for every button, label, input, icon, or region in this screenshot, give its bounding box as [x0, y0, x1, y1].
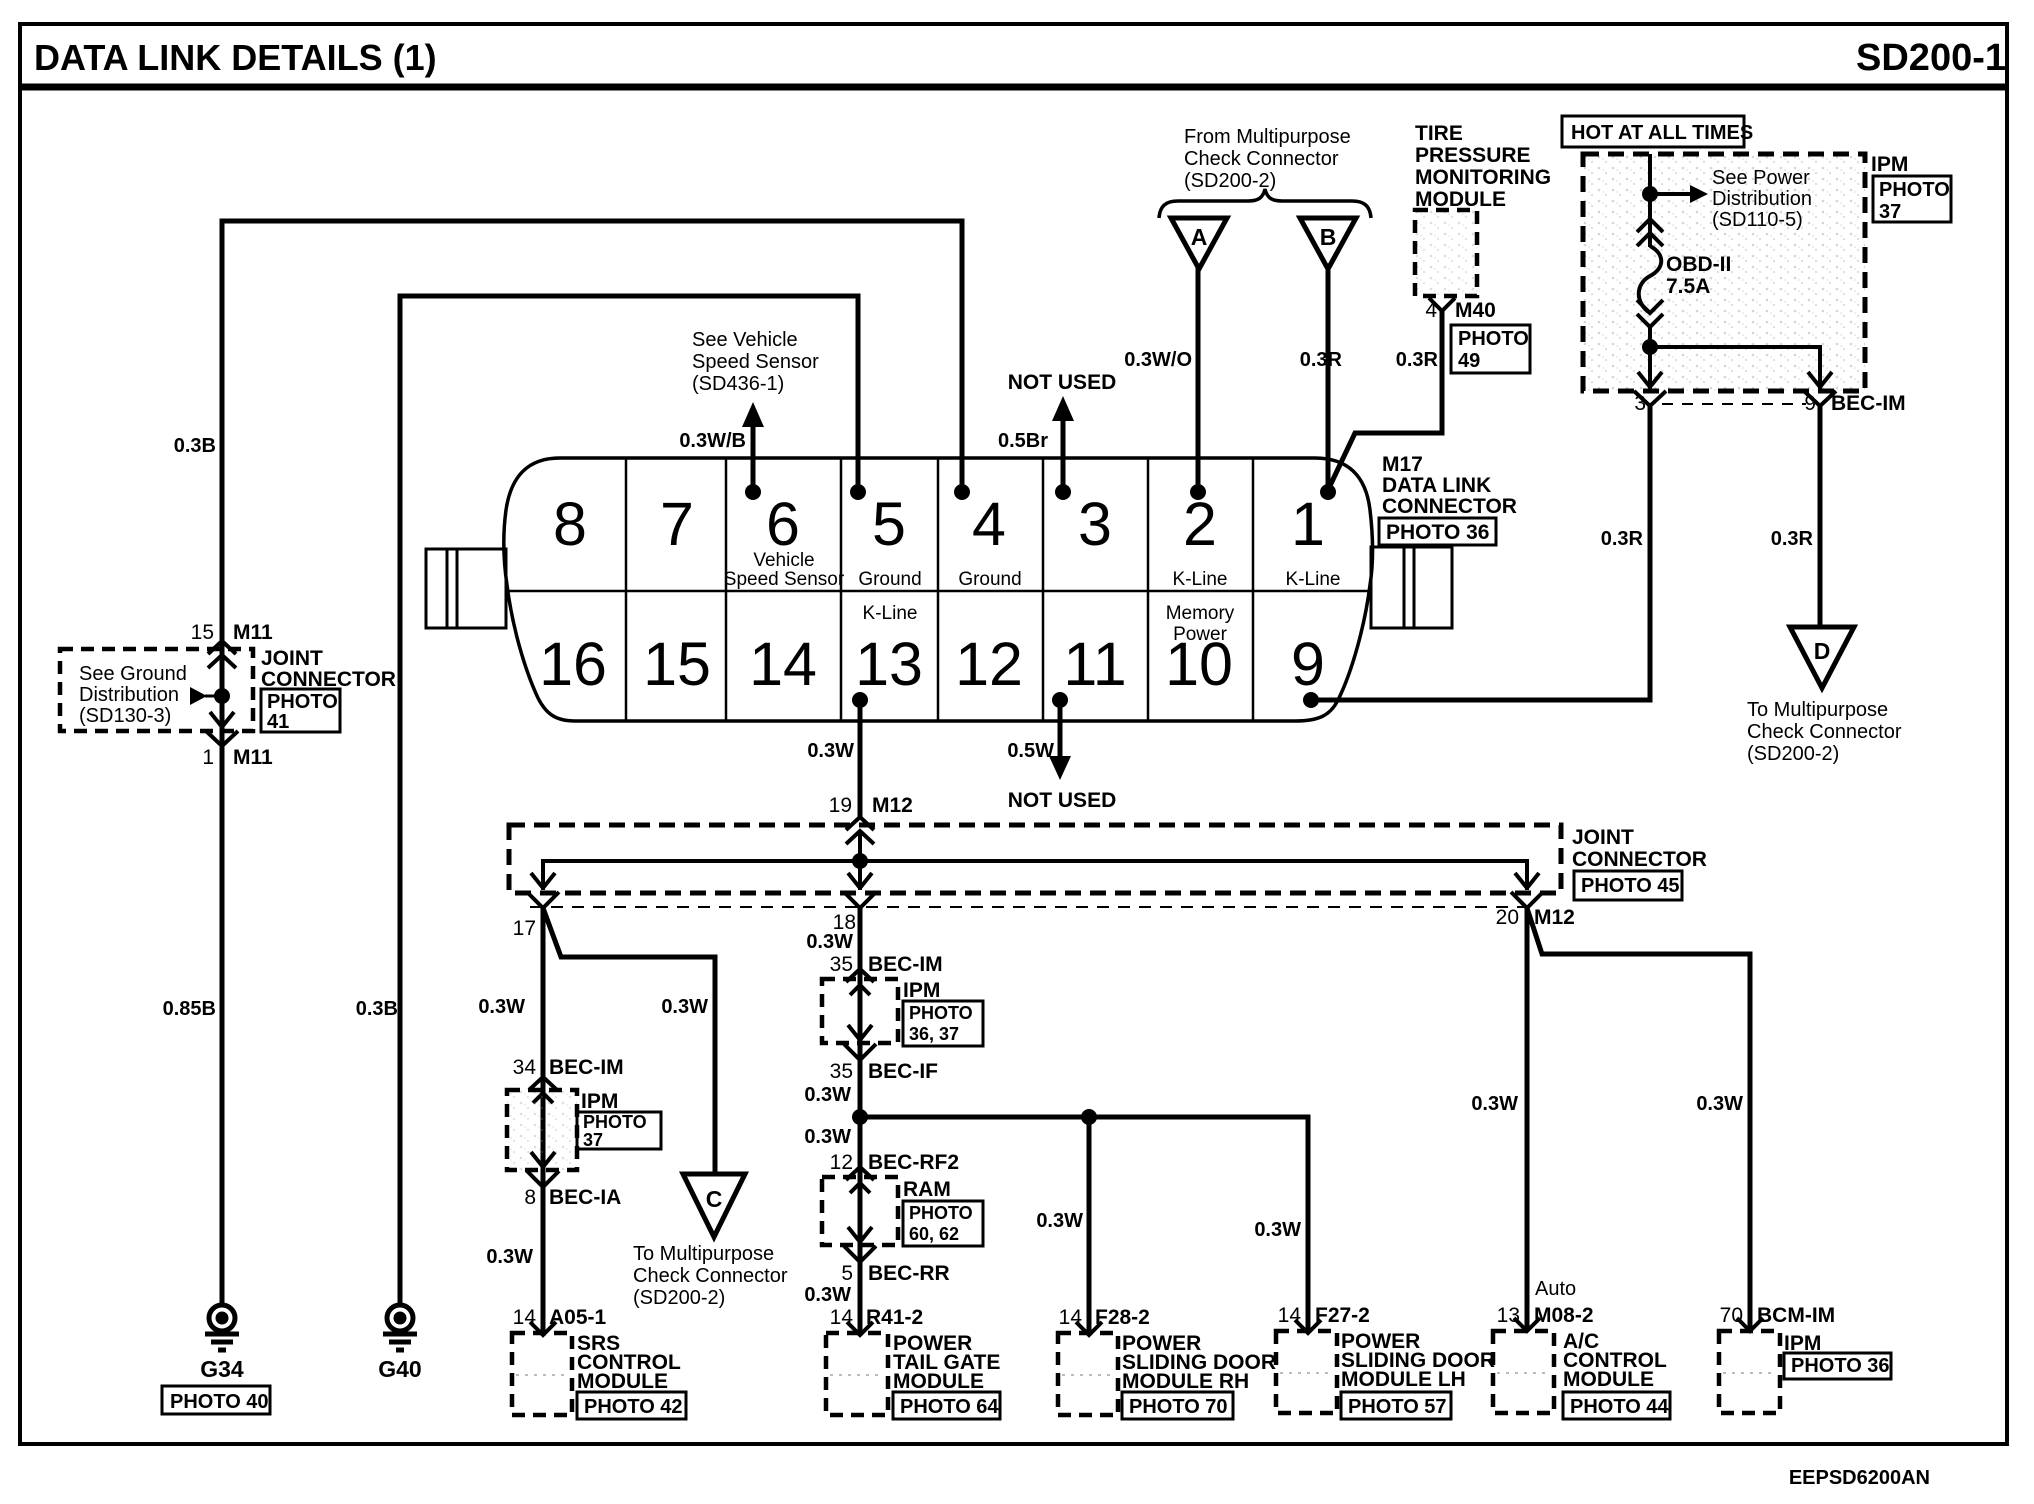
svg-text:IPM: IPM: [903, 979, 940, 1002]
svg-text:M17: M17: [1382, 453, 1423, 476]
PHOTO 44 box: [1563, 1392, 1670, 1419]
PHOTO 42 box: [577, 1392, 686, 1419]
wire M40 down to pin1: [1328, 311, 1442, 490]
svg-text:MODULE: MODULE: [1563, 1368, 1654, 1391]
svg-text:RAM: RAM: [903, 1178, 951, 1201]
PHOTO 45 box: [1574, 871, 1682, 900]
SRS control module dashed box: [512, 1333, 572, 1415]
svg-text:9: 9: [1291, 630, 1325, 698]
svg-text:PHOTO: PHOTO: [909, 1203, 973, 1223]
wire: G34 riser up, across top to pin 4: [222, 221, 962, 1306]
svg-text:4: 4: [1425, 299, 1437, 322]
svg-text:MODULE: MODULE: [1415, 188, 1506, 211]
svg-text:0.3B: 0.3B: [356, 998, 398, 1020]
svg-text:19: 19: [829, 794, 852, 817]
A/C control module dashed box: [1493, 1331, 1554, 1413]
svg-text:K-Line: K-Line: [863, 603, 918, 624]
svg-text:14: 14: [749, 630, 817, 698]
IPM dashed box (top right) with speckle fill: [1583, 154, 1865, 391]
IPM module dashed box (bottom right): [1719, 1331, 1780, 1413]
connector 13 M08-2 chevron: [1514, 1318, 1540, 1331]
svg-text:K-Line: K-Line: [1173, 569, 1228, 590]
svg-text:MODULE RH: MODULE RH: [1122, 1370, 1249, 1393]
HOT AT ALL TIMES box: [1562, 116, 1744, 147]
svg-text:0.3R: 0.3R: [1396, 349, 1439, 371]
svg-text:To Multipurpose: To Multipurpose: [633, 1243, 774, 1265]
svg-text:15: 15: [643, 630, 711, 698]
svg-text:G34: G34: [200, 1356, 244, 1382]
svg-text:IPM: IPM: [581, 1090, 618, 1113]
IPM pass-through dashed box (middle): [822, 979, 898, 1043]
power tail gate module dashed box: [826, 1333, 888, 1415]
svg-text:49: 49: [1458, 350, 1480, 372]
connector cell dividers vertical: [626, 458, 1253, 721]
svg-text:F28-2: F28-2: [1095, 1306, 1150, 1329]
wire: G40 riser up, across to pin 5: [400, 296, 858, 1306]
svg-text:BEC-IM: BEC-IM: [1831, 392, 1906, 415]
svg-text:60, 62: 60, 62: [909, 1224, 959, 1244]
svg-text:BCM-IM: BCM-IM: [1757, 1304, 1835, 1327]
svg-text:MODULE: MODULE: [893, 1370, 984, 1393]
svg-text:5: 5: [872, 490, 906, 558]
svg-text:16: 16: [539, 630, 607, 698]
svg-text:(SD110-5): (SD110-5): [1712, 209, 1803, 231]
svg-text:(SD200-2): (SD200-2): [633, 1287, 725, 1309]
title separator bar: [18, 84, 2009, 91]
svg-text:BEC-IF: BEC-IF: [868, 1060, 938, 1083]
svg-text:0.3W: 0.3W: [806, 931, 853, 953]
off-page triangle C: [683, 1174, 745, 1237]
svg-text:1: 1: [202, 746, 214, 769]
svg-text:NOT USED: NOT USED: [1008, 789, 1117, 812]
power sliding door module RH dashed box: [1058, 1333, 1118, 1415]
connector exit 8 BEC-IA (arrow + chevron): [527, 1152, 559, 1187]
svg-text:G40: G40: [378, 1356, 421, 1382]
wire pin9 to IPM pin 3: [1311, 406, 1650, 700]
svg-text:PHOTO 70: PHOTO 70: [1129, 1396, 1228, 1418]
svg-text:M11: M11: [233, 621, 273, 644]
svg-text:PHOTO: PHOTO: [267, 691, 338, 713]
svg-text:7.5A: 7.5A: [1666, 275, 1710, 298]
svg-text:0.3W: 0.3W: [478, 996, 525, 1018]
svg-text:MONITORING: MONITORING: [1415, 166, 1551, 189]
svg-text:9: 9: [1804, 392, 1816, 415]
wire F28-2 branch down: [1087, 1117, 1092, 1332]
svg-text:14: 14: [1278, 1304, 1302, 1327]
connector 14 A05-1 chevron: [530, 1322, 556, 1335]
svg-text:5: 5: [841, 1262, 853, 1285]
svg-text:0.3R: 0.3R: [1601, 528, 1644, 550]
connector 14 R41-2 chevron: [847, 1322, 873, 1335]
svg-text:PHOTO 36: PHOTO 36: [1791, 1355, 1890, 1377]
svg-text:Speed Sensor: Speed Sensor: [692, 351, 819, 373]
connector exit 17 (arrow + chevron): [527, 873, 559, 908]
wire pin11 NOT USED arrow down: [1058, 700, 1063, 757]
connector exit 3 (arrow + chevron): [1634, 372, 1666, 406]
connector 15 M11 chevrons (entry up): [208, 641, 236, 668]
wire column 18 down to R41-2: [858, 908, 863, 1332]
svg-text:To Multipurpose: To Multipurpose: [1747, 699, 1888, 721]
branch wire to pin 9 exit: [1650, 347, 1820, 391]
svg-text:14: 14: [1059, 1306, 1083, 1329]
svg-text:M12: M12: [1534, 906, 1575, 929]
PHOTO 57 box: [1341, 1392, 1451, 1419]
svg-text:0.3W: 0.3W: [661, 996, 708, 1018]
wire pin1 to triangle B: [1326, 268, 1331, 492]
connector mid horizontal divider: [507, 590, 1371, 593]
svg-text:34: 34: [513, 1056, 537, 1079]
svg-text:JOINT: JOINT: [1572, 826, 1634, 849]
svg-text:MODULE: MODULE: [577, 1370, 668, 1393]
junction dot (power feed): [1642, 186, 1658, 202]
svg-text:35: 35: [830, 953, 853, 976]
svg-text:37: 37: [583, 1130, 603, 1150]
PHOTO 64 box: [893, 1392, 1000, 1419]
svg-text:BEC-IA: BEC-IA: [549, 1186, 621, 1209]
connector 70 BCM-IM chevron: [1737, 1318, 1763, 1331]
svg-text:SD200-1: SD200-1: [1856, 37, 2006, 79]
svg-text:3: 3: [1078, 490, 1112, 558]
svg-text:M11: M11: [233, 746, 273, 769]
junction dot K-line bus: [852, 1109, 868, 1125]
svg-text:1: 1: [1291, 490, 1325, 558]
svg-text:OBD-II: OBD-II: [1666, 253, 1731, 276]
ground G34: [209, 1305, 235, 1331]
arrow to ground distribution: [190, 687, 207, 705]
svg-text:Vehicle: Vehicle: [753, 550, 814, 571]
bus wire inside joint connector: [543, 861, 1527, 890]
connector 12 BEC-RF2 chevrons (entry up): [846, 1167, 874, 1193]
junction dot (split to 3 and 9): [1642, 339, 1658, 355]
off-page triangle B: [1300, 218, 1356, 269]
svg-text:17: 17: [513, 917, 536, 940]
svg-text:Ground: Ground: [958, 569, 1021, 590]
PHOTO 41 box: [261, 689, 340, 732]
PHOTO 60, 62 box: [903, 1201, 983, 1246]
svg-text:DATA LINK: DATA LINK: [1382, 474, 1491, 497]
svg-text:8: 8: [524, 1186, 536, 1209]
svg-text:BEC-IM: BEC-IM: [549, 1056, 624, 1079]
svg-text:Check Connector: Check Connector: [1184, 148, 1339, 170]
RAM pass-through dashed box: [822, 1177, 898, 1245]
branch wire 17 to triangle C: [543, 908, 715, 1173]
svg-text:MODULE LH: MODULE LH: [1341, 1368, 1466, 1391]
svg-text:PHOTO 57: PHOTO 57: [1348, 1396, 1447, 1418]
svg-text:0.3W/B: 0.3W/B: [679, 430, 746, 452]
svg-text:Ground: Ground: [858, 569, 921, 590]
pin terminal dots top row: [745, 484, 761, 500]
joint connector M11 dashed box: [60, 649, 253, 731]
wire from fuse to bottom edge: [1648, 327, 1652, 391]
svg-text:0.85B: 0.85B: [163, 998, 216, 1020]
svg-text:0.3W: 0.3W: [804, 1284, 851, 1306]
junction dot F28-2 branch: [1081, 1109, 1097, 1125]
svg-text:6: 6: [766, 490, 800, 558]
wire pin3 NOT USED arrow up: [1061, 418, 1066, 492]
svg-text:7: 7: [660, 490, 694, 558]
fuse bottom double chevron: [1637, 300, 1663, 327]
connector exit 5 BEC-RR (arrow + chevron): [844, 1227, 876, 1262]
svg-text:36, 37: 36, 37: [909, 1024, 959, 1044]
svg-text:12: 12: [955, 630, 1023, 698]
svg-text:0.3W: 0.3W: [807, 740, 854, 762]
connector 19 M12 chevrons (entry up): [846, 817, 874, 844]
svg-text:41: 41: [267, 711, 289, 733]
svg-text:PHOTO 42: PHOTO 42: [584, 1396, 683, 1418]
svg-text:Distribution: Distribution: [1712, 188, 1812, 210]
thin dashed line below joint connector: [530, 906, 1535, 908]
svg-text:14: 14: [513, 1306, 537, 1329]
svg-text:JOINT: JOINT: [261, 647, 323, 670]
arrow to See Power Distribution: [1650, 192, 1690, 196]
junction dot on bus: [852, 853, 868, 869]
svg-text:IPM: IPM: [1871, 153, 1908, 176]
connector 4 M40 chevron at TPMS box bottom: [1429, 298, 1455, 311]
PHOTO 36 box (bottom right): [1784, 1353, 1891, 1379]
connector exit 20 M12 (arrow + chevron): [1511, 873, 1543, 908]
wire inside IPM from top edge down: [1648, 154, 1652, 247]
svg-text:PHOTO 36: PHOTO 36: [1386, 521, 1489, 544]
svg-text:0.3W/O: 0.3W/O: [1124, 349, 1192, 371]
svg-text:M08-2: M08-2: [1534, 1304, 1594, 1327]
connector exit 35 BEC-IF (arrow + chevron): [844, 1025, 876, 1060]
PHOTO 40 box: [162, 1386, 270, 1414]
power sliding door module LH dashed box: [1276, 1331, 1337, 1413]
svg-text:0.5W: 0.5W: [1007, 740, 1054, 762]
svg-text:EEPSD6200AN: EEPSD6200AN: [1789, 1467, 1930, 1489]
left mounting tab: [426, 549, 506, 628]
wire pin2 to triangle A: [1196, 268, 1201, 492]
svg-text:0.3W: 0.3W: [804, 1084, 851, 1106]
svg-text:0.3W: 0.3W: [486, 1246, 533, 1268]
svg-text:M12: M12: [872, 794, 913, 817]
M17 data link connector body outline: [504, 458, 1373, 721]
TPMS module dashed box: [1415, 210, 1477, 296]
svg-text:Auto: Auto: [1535, 1278, 1576, 1300]
svg-text:F27-2: F27-2: [1315, 1304, 1370, 1327]
svg-text:A05-1: A05-1: [549, 1306, 607, 1329]
svg-text:20: 20: [1496, 906, 1519, 929]
svg-text:0.3W: 0.3W: [1471, 1093, 1518, 1115]
svg-text:35: 35: [830, 1060, 853, 1083]
svg-text:3: 3: [1634, 392, 1646, 415]
connector 35 BEC-IM chevrons (entry up): [846, 969, 874, 995]
svg-text:Power: Power: [1173, 624, 1228, 645]
svg-text:14: 14: [830, 1306, 854, 1329]
IPM pass-through dashed box (left): [507, 1090, 577, 1170]
svg-text:8: 8: [553, 490, 587, 558]
svg-text:Check Connector: Check Connector: [633, 1265, 788, 1287]
svg-text:BEC-RR: BEC-RR: [868, 1262, 950, 1285]
svg-text:0.3W: 0.3W: [1254, 1219, 1301, 1241]
svg-text:BEC-RF2: BEC-RF2: [868, 1151, 959, 1174]
svg-text:11: 11: [1063, 630, 1126, 698]
svg-text:C: C: [706, 1186, 723, 1212]
svg-text:PHOTO 40: PHOTO 40: [170, 1391, 269, 1413]
wire column 17 down to SRS module: [541, 908, 546, 1332]
fuse OBD-II 7.5A : top double chevron: [1637, 219, 1663, 246]
PHOTO 36, 37 box: [903, 1001, 983, 1046]
wire pin6 to vehicle speed sensor arrow: [751, 424, 756, 492]
connector 1 M11 (exit down: arrow + chevron): [206, 712, 238, 746]
fuse element (S curve): [1639, 246, 1662, 313]
svg-text:Memory: Memory: [1166, 603, 1235, 624]
svg-text:DATA LINK DETAILS (1): DATA LINK DETAILS (1): [34, 37, 437, 78]
svg-text:0.3W: 0.3W: [1036, 1210, 1083, 1232]
svg-text:PHOTO: PHOTO: [909, 1003, 973, 1023]
svg-text:(SD200-2): (SD200-2): [1184, 170, 1276, 192]
svg-text:PHOTO 44: PHOTO 44: [1570, 1396, 1669, 1418]
wire pin13 down to joint connector: [858, 700, 863, 818]
svg-text:R41-2: R41-2: [866, 1306, 923, 1329]
svg-text:PHOTO: PHOTO: [583, 1112, 647, 1132]
off-page triangle A: [1171, 218, 1227, 269]
svg-text:CONNECTOR: CONNECTOR: [1382, 495, 1517, 518]
connector 14 F27-2 chevron: [1295, 1320, 1321, 1333]
svg-text:13: 13: [855, 630, 923, 698]
svg-text:0.3R: 0.3R: [1300, 349, 1343, 371]
connector 14 F28-2 chevron: [1076, 1322, 1102, 1335]
svg-text:See Power: See Power: [1712, 167, 1810, 189]
svg-text:See Ground: See Ground: [79, 663, 187, 685]
svg-text:See Vehicle: See Vehicle: [692, 329, 798, 351]
svg-text:0.3B: 0.3B: [174, 435, 216, 457]
svg-text:13: 13: [1497, 1304, 1520, 1327]
svg-text:PHOTO: PHOTO: [1879, 179, 1950, 201]
PHOTO 36 box (M17): [1379, 518, 1496, 545]
svg-text:0.3W: 0.3W: [1696, 1093, 1743, 1115]
joint connector M12 dashed box: [509, 825, 1561, 893]
svg-text:HOT AT ALL TIMES: HOT AT ALL TIMES: [1571, 122, 1753, 144]
svg-text:0.5Br: 0.5Br: [998, 430, 1048, 452]
PHOTO 49 box: [1451, 325, 1530, 373]
brace over triangles A and B: [1159, 189, 1371, 218]
junction dot on M11 wire: [214, 688, 230, 704]
svg-text:(SD200-2): (SD200-2): [1747, 743, 1839, 765]
svg-text:12: 12: [830, 1151, 853, 1174]
svg-text:4: 4: [972, 490, 1006, 558]
connector 34 BEC-IM chevrons (entry up): [529, 1077, 557, 1103]
svg-text:K-Line: K-Line: [1286, 569, 1341, 590]
svg-text:CONNECTOR: CONNECTOR: [1572, 848, 1707, 871]
svg-text:PHOTO 45: PHOTO 45: [1581, 875, 1680, 897]
svg-text:M40: M40: [1455, 299, 1496, 322]
PHOTO 70 box: [1122, 1392, 1233, 1419]
svg-text:NOT USED: NOT USED: [1008, 371, 1117, 394]
svg-text:0.3W: 0.3W: [804, 1126, 851, 1148]
svg-text:B: B: [1320, 224, 1337, 250]
off-page triangle D: [1790, 627, 1854, 688]
svg-text:15: 15: [191, 621, 214, 644]
wire column 20 down to M08-2: [1525, 908, 1530, 1330]
connector exit 9 BEC-IM (arrow + chevron): [1804, 372, 1836, 406]
branch wire 20 to BCM-IM: [1527, 908, 1750, 1330]
thin dashed line under IPM exits: [1662, 403, 1806, 405]
PHOTO 37 box (top right): [1873, 176, 1951, 222]
svg-text:PHOTO: PHOTO: [1458, 328, 1529, 350]
svg-text:(SD436-1): (SD436-1): [692, 373, 784, 395]
svg-text:0.3R: 0.3R: [1771, 528, 1814, 550]
wire through joint connector at x=860: [858, 831, 862, 890]
right mounting tab: [1371, 547, 1452, 628]
PHOTO 37 box (left): [577, 1112, 661, 1149]
svg-text:Speed Sensor: Speed Sensor: [724, 569, 845, 590]
pin terminal dots bottom row: [852, 692, 868, 708]
ground G40: [387, 1305, 413, 1331]
svg-text:BEC-IM: BEC-IM: [868, 953, 943, 976]
svg-text:Distribution: Distribution: [79, 684, 179, 706]
svg-text:37: 37: [1879, 201, 1901, 223]
wire bus to F27-2: [860, 1117, 1308, 1332]
svg-text:A: A: [1191, 224, 1208, 250]
svg-text:PHOTO 64: PHOTO 64: [900, 1396, 999, 1418]
svg-text:Check Connector: Check Connector: [1747, 721, 1902, 743]
svg-text:(SD130-3): (SD130-3): [79, 705, 171, 727]
wire 9 BEC-IM down to triangle D: [1818, 406, 1823, 626]
svg-text:From Multipurpose: From Multipurpose: [1184, 126, 1351, 148]
connector exit 18 (arrow + chevron): [844, 873, 876, 908]
svg-text:TIRE: TIRE: [1415, 122, 1463, 145]
svg-text:PRESSURE: PRESSURE: [1415, 144, 1531, 167]
svg-text:D: D: [1814, 638, 1831, 664]
svg-text:2: 2: [1183, 490, 1217, 558]
svg-text:70: 70: [1720, 1304, 1743, 1327]
